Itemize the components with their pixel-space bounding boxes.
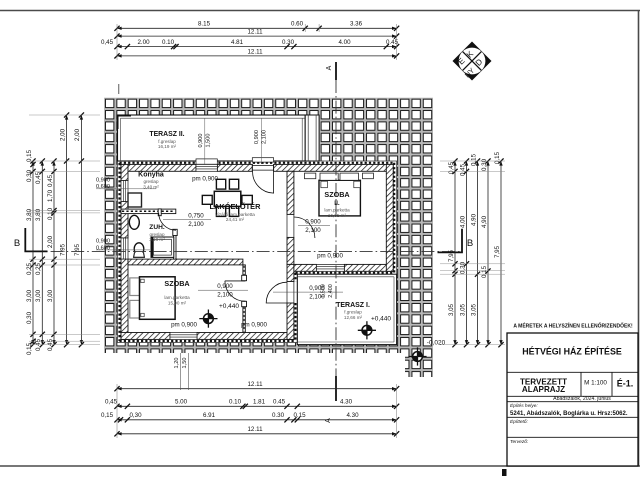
svg-text:4.00: 4.00	[338, 39, 351, 46]
svg-text:0,600: 0,600	[96, 245, 110, 251]
svg-text:0,45: 0,45	[105, 399, 118, 406]
svg-text:TERASZ I.: TERASZ I.	[336, 302, 370, 309]
svg-text:12.11: 12.11	[247, 381, 263, 388]
svg-text:0,15: 0,15	[26, 342, 33, 355]
svg-text:3,05: 3,05	[459, 303, 466, 316]
svg-text:4,90: 4,90	[481, 215, 488, 228]
svg-text:0,45: 0,45	[101, 39, 114, 46]
svg-text:0,30: 0,30	[129, 412, 142, 419]
svg-text:3,00: 3,00	[35, 289, 42, 302]
svg-text:2.00: 2.00	[137, 39, 150, 46]
svg-text:2,00: 2,00	[74, 128, 81, 141]
svg-text:0.10: 0.10	[162, 39, 175, 46]
svg-text:7,95: 7,95	[448, 249, 455, 262]
svg-text:-0,020: -0,020	[427, 340, 446, 347]
svg-text:Abádszalók, 2024. június: Abádszalók, 2024. június	[553, 396, 611, 402]
svg-text:0,25: 0,25	[35, 262, 42, 275]
svg-text:0,45: 0,45	[448, 161, 455, 174]
svg-text:7,95: 7,95	[74, 243, 81, 256]
svg-text:2,400: 2,400	[328, 284, 334, 298]
svg-text:0,45: 0,45	[459, 163, 466, 176]
svg-text:0,25: 0,25	[26, 262, 33, 275]
svg-text:0,900: 0,900	[198, 134, 204, 148]
svg-text:2,00: 2,00	[59, 128, 66, 141]
svg-text:pm 0,900: pm 0,900	[317, 253, 343, 260]
svg-text:3,00: 3,00	[26, 289, 33, 302]
svg-text:16,05 m²: 16,05 m²	[328, 213, 347, 218]
svg-text:0,600: 0,600	[96, 184, 110, 190]
svg-text:II.: II.	[334, 200, 340, 207]
svg-text:1,70: 1,70	[47, 189, 54, 202]
svg-text:1.81: 1.81	[253, 399, 266, 406]
svg-text:6.91: 6.91	[203, 412, 216, 419]
svg-text:pm 0,900: pm 0,900	[192, 175, 218, 182]
svg-text:0.15: 0.15	[293, 412, 306, 419]
svg-text:0,900: 0,900	[305, 218, 321, 225]
svg-text:0,900: 0,900	[254, 130, 260, 144]
svg-text:1,500: 1,500	[206, 134, 212, 148]
svg-text:HÉTVÉGI HÁZ ÉPÍTÉSE: HÉTVÉGI HÁZ ÉPÍTÉSE	[522, 347, 622, 357]
svg-text:É-1.: É-1.	[617, 379, 634, 389]
svg-text:0,900: 0,900	[96, 177, 110, 183]
svg-text:LAKÓELŐTÉR: LAKÓELŐTÉR	[210, 202, 262, 211]
svg-text:0.45: 0.45	[273, 399, 286, 406]
svg-text:B: B	[467, 238, 473, 249]
svg-text:4,90: 4,90	[470, 213, 477, 226]
svg-text:12.11: 12.11	[247, 48, 263, 55]
svg-text:ZUH.: ZUH.	[149, 224, 165, 231]
svg-text:4.30: 4.30	[346, 412, 359, 419]
svg-text:7,95: 7,95	[494, 245, 501, 258]
svg-text:4.81: 4.81	[231, 39, 244, 46]
svg-text:B: B	[14, 238, 20, 249]
svg-text:0,15: 0,15	[481, 265, 488, 278]
svg-text:2,100: 2,100	[305, 227, 321, 234]
svg-text:lam.parketta: lam.parketta	[324, 208, 350, 213]
svg-text:5241, Abádszalók, Boglárka u.: 5241, Abádszalók, Boglárka u. Hrsz:5062.	[510, 411, 628, 417]
svg-text:4,00: 4,00	[459, 215, 466, 228]
svg-text:2,00: 2,00	[47, 235, 54, 248]
svg-text:A MÉRETEK A HELYSZÍNEN ELLENŐR: A MÉRETEK A HELYSZÍNEN ELLENŐRIZENDŐEK!	[513, 322, 633, 330]
svg-text:3,40 m²: 3,40 m²	[143, 184, 159, 189]
svg-text:0,30: 0,30	[481, 158, 488, 171]
svg-text:15,90 m²: 15,90 m²	[168, 301, 187, 306]
svg-text:A: A	[326, 65, 333, 70]
svg-text:4.30: 4.30	[340, 399, 353, 406]
svg-text:0,900: 0,900	[96, 238, 110, 244]
svg-text:0,15: 0,15	[101, 412, 114, 419]
svg-text:0,750: 0,750	[188, 213, 204, 220]
svg-text:12.11: 12.11	[247, 29, 263, 36]
svg-text:3,18 m²: 3,18 m²	[149, 237, 165, 242]
svg-text:7,95: 7,95	[59, 243, 66, 256]
svg-text:SZOBA: SZOBA	[324, 190, 349, 199]
svg-text:pm 0,900: pm 0,900	[241, 322, 267, 329]
svg-text:0,15: 0,15	[494, 151, 501, 164]
svg-text:ALAPRAJZ: ALAPRAJZ	[522, 385, 565, 394]
svg-text:0,30: 0,30	[26, 311, 33, 324]
svg-text:0.60: 0.60	[291, 21, 304, 28]
svg-text:12.11: 12.11	[247, 426, 263, 433]
svg-text:+0,440: +0,440	[371, 316, 391, 323]
svg-text:8.15: 8.15	[198, 21, 211, 28]
svg-text:lam.parketta: lam.parketta	[164, 295, 190, 300]
svg-text:3,05: 3,05	[470, 303, 477, 316]
svg-text:Konyha: Konyha	[138, 171, 164, 178]
svg-text:2,100: 2,100	[188, 221, 204, 228]
svg-text:16,19 m²: 16,19 m²	[158, 144, 177, 149]
svg-text:2,100: 2,100	[262, 130, 268, 144]
svg-text:0,15: 0,15	[470, 153, 477, 166]
svg-text:1,20: 1,20	[174, 358, 180, 369]
svg-text:TERASZ II.: TERASZ II.	[149, 131, 184, 138]
svg-text:2,100: 2,100	[217, 292, 233, 299]
svg-text:3.36: 3.36	[350, 21, 363, 28]
svg-text:0,15: 0,15	[26, 149, 33, 162]
svg-text:1,500: 1,500	[321, 284, 327, 298]
svg-text:SZOBA: SZOBA	[164, 279, 189, 288]
svg-text:pm 0,900: pm 0,900	[171, 322, 197, 329]
svg-text:0.30: 0.30	[272, 412, 285, 419]
svg-text:1,50: 1,50	[182, 358, 188, 369]
svg-text:0,45: 0,45	[47, 174, 54, 187]
svg-text:24,41 m²: 24,41 m²	[226, 217, 245, 222]
svg-text:A: A	[325, 418, 332, 423]
svg-text:0,900: 0,900	[217, 283, 233, 290]
svg-text:Építés helye:: Építés helye:	[510, 402, 538, 409]
svg-text:0.30: 0.30	[282, 39, 295, 46]
svg-text:12,66 m²: 12,66 m²	[344, 315, 363, 320]
svg-text:0,45: 0,45	[35, 171, 42, 184]
svg-text:0.10: 0.10	[229, 399, 242, 406]
svg-text:3,05: 3,05	[448, 303, 455, 316]
svg-text:3,00: 3,00	[47, 289, 54, 302]
svg-text:Építtető:: Építtető:	[510, 418, 529, 425]
svg-text:0,10: 0,10	[47, 207, 54, 220]
svg-text:Tervező:: Tervező:	[510, 439, 529, 445]
svg-text:M 1:100: M 1:100	[584, 379, 607, 386]
svg-text:+0,440: +0,440	[219, 303, 239, 310]
svg-text:0,30: 0,30	[459, 261, 466, 274]
svg-text:5.00: 5.00	[175, 399, 188, 406]
